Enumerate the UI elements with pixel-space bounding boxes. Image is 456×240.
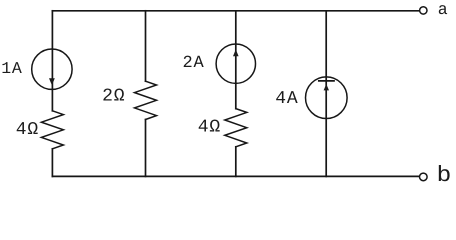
terminal b circle (420, 173, 428, 181)
wire top bus (node a net) (52, 10, 419, 12)
resistor R1 4ohm zigzag (41, 111, 63, 149)
wire branch 2 lower segment (145, 120, 147, 177)
current source I3 4A circle (306, 77, 348, 119)
svg-text:1A: 1A (1, 59, 22, 78)
resistor R3 4ohm zigzag (225, 109, 247, 147)
arrow of source I2 (up) (233, 49, 239, 56)
wire branch 3 lower segment (235, 147, 237, 177)
arrow of source I3 (up) (324, 84, 329, 90)
wire tick at top of I3 circle (319, 80, 334, 82)
current source I2 2A circle (216, 44, 255, 83)
wire branch 4 (through source I3) (325, 11, 327, 177)
terminal a circle (420, 7, 427, 14)
wire branch 3 upper segment (through source I2) (235, 11, 237, 109)
svg-text:b: b (437, 163, 453, 184)
resistor R2 2ohm zigzag (135, 81, 157, 119)
current source I1 1A circle (32, 49, 72, 89)
wire branch 1 upper segment (through source I1) (51, 11, 53, 111)
svg-text:2Ω: 2Ω (102, 87, 125, 107)
svg-text:4Ω: 4Ω (16, 120, 39, 140)
svg-text:a: a (438, 0, 449, 19)
svg-text:2A: 2A (183, 54, 205, 73)
arrow of source I1 (down) (49, 78, 55, 85)
svg-text:4Ω: 4Ω (198, 118, 221, 138)
wire bottom bus (node b net) (52, 175, 419, 177)
wire branch 1 lower segment (51, 149, 53, 177)
wire branch 2 upper segment (145, 11, 147, 81)
svg-text:4A: 4A (275, 89, 298, 109)
